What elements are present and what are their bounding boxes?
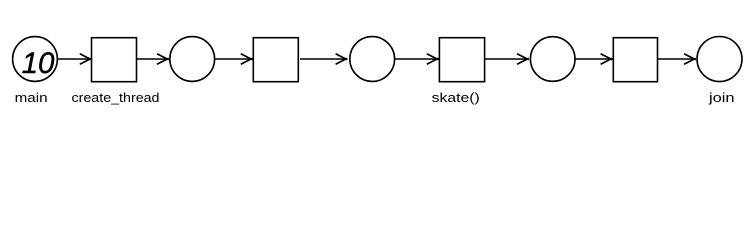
svg-text:10: 10 (22, 47, 55, 80)
arrow skate to P3 (485, 54, 529, 64)
place P2 (350, 37, 395, 82)
svg-text:main: main (15, 90, 48, 105)
arrow T4 to join (658, 54, 696, 64)
place P3 (530, 37, 575, 82)
transition T1 (create_thread) (92, 38, 137, 82)
place P1 (170, 37, 215, 82)
arrow create_thread to P1 (137, 54, 169, 64)
arrow P1 to T2 (215, 54, 253, 64)
arrow P2 to skate (395, 54, 439, 64)
svg-text:create_thread: create_thread (72, 90, 160, 105)
transition T4 (613, 38, 657, 82)
svg-text:skate(): skate() (432, 90, 480, 105)
place P4 (join) (697, 37, 742, 82)
arrow main to create_thread (58, 54, 92, 64)
transition T2 (253, 38, 298, 82)
place P0 (main) (13, 37, 58, 82)
svg-text:join: join (708, 90, 735, 105)
arrow T2 to P2 (300, 54, 347, 64)
transition T3 (skate) (439, 38, 484, 82)
arrow P3 to T4 (575, 54, 612, 64)
